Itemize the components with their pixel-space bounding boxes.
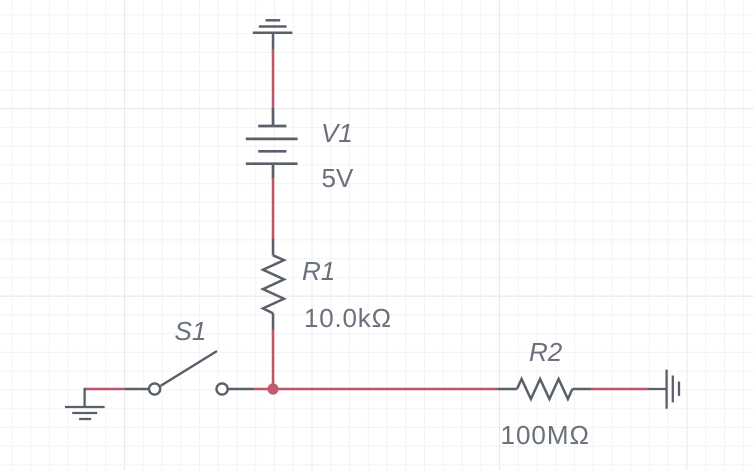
wire net5 (R2 to right ground) — [591, 388, 649, 391]
ground GND2 (left) — [65, 388, 105, 419]
wire net2 (battery to R1) — [272, 178, 275, 240]
wire net3 (node to left, to switch) — [254, 388, 274, 391]
node junction — [267, 383, 278, 394]
wire net1 (top ground to battery) — [272, 49, 275, 109]
svg-text:S1: S1 — [175, 316, 207, 346]
resistor R1 — [263, 239, 284, 331]
wire net4 (left ground to switch) — [85, 388, 125, 391]
wire net3 (node to right, to R2) — [273, 388, 499, 391]
ground GND3 (right, rotated) — [649, 370, 679, 409]
svg-text:V1: V1 — [321, 118, 353, 148]
battery V1 — [246, 108, 298, 179]
svg-text:R2: R2 — [529, 337, 563, 367]
ground GND1 (top, flipped) — [253, 20, 293, 50]
svg-text:100MΩ: 100MΩ — [501, 420, 590, 450]
switch S1 — [125, 351, 254, 395]
wire net3 (R1 to node) — [272, 329, 275, 389]
svg-text:5V: 5V — [322, 163, 354, 193]
svg-text:R1: R1 — [302, 256, 335, 286]
resistor R2 — [498, 379, 591, 399]
svg-text:10.0kΩ: 10.0kΩ — [304, 303, 392, 333]
